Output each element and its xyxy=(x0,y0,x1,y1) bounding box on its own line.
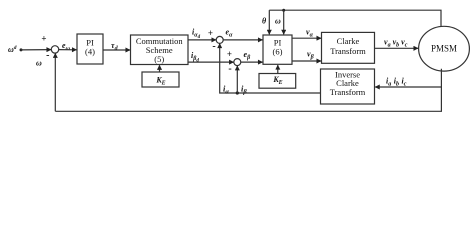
svg-text:vβ: vβ xyxy=(307,49,315,60)
svg-text:ω: ω xyxy=(36,59,42,68)
op block PI6 xyxy=(263,35,292,64)
svg-text:-: - xyxy=(212,41,215,52)
wire Commutation to S2 xyxy=(188,39,216,41)
svg-text:iαd: iαd xyxy=(192,28,201,41)
block Commutation Scheme xyxy=(131,35,189,65)
svg-text:-: - xyxy=(228,64,231,75)
wire PMSM currents to Inverse Clarke xyxy=(375,86,441,88)
wire S1 to PI4 xyxy=(59,49,77,51)
svg-text:Transform: Transform xyxy=(330,46,366,56)
svg-text:-: - xyxy=(46,50,49,61)
svg-text:eβ: eβ xyxy=(244,50,252,61)
wire omega into PI6 xyxy=(283,10,285,34)
block Clarke Transform xyxy=(322,32,375,63)
svg-text:(6): (6) xyxy=(273,46,283,56)
summing junction S3 xyxy=(234,59,241,66)
wire theta into PI6 xyxy=(268,10,270,34)
wire Commutation to S3 xyxy=(188,61,234,63)
svg-text:+: + xyxy=(208,28,213,38)
junction dot omega top line xyxy=(282,9,285,12)
wire input to summing junction S1 xyxy=(21,49,51,51)
svg-text:iα: iα xyxy=(223,84,229,96)
node input dot xyxy=(20,48,23,51)
block KE2 xyxy=(259,74,296,89)
wire KE1 to Commutation xyxy=(159,65,161,72)
wire S2 to PI6 xyxy=(223,39,262,41)
wire KE2 to PI6 xyxy=(277,65,279,73)
svg-text:Clarke: Clarke xyxy=(337,36,360,46)
summing junction S2 xyxy=(216,36,223,43)
wire PMSM bottom feedback vertical xyxy=(55,69,441,112)
wire S3 to PI6 xyxy=(241,61,263,63)
svg-text:eω: eω xyxy=(62,41,71,52)
summing junction S1 xyxy=(51,46,58,53)
junction dot i_beta xyxy=(236,91,239,94)
svg-text:θ: θ xyxy=(262,17,267,26)
wire i_beta up to S3 xyxy=(236,66,238,93)
svg-text:+: + xyxy=(227,49,232,59)
machine PMSM xyxy=(419,26,470,71)
svg-text:vα: vα xyxy=(306,28,314,39)
wire PI4 to Commutation xyxy=(103,49,130,51)
wire Inverse Clarke output i_alpha i_beta xyxy=(220,44,321,93)
svg-text:ωd: ωd xyxy=(8,45,17,54)
svg-text:PMSM: PMSM xyxy=(431,44,457,54)
op block PI4 xyxy=(77,34,103,64)
wire Clarke to PMSM xyxy=(375,47,419,49)
block Inverse Clarke Transform xyxy=(321,69,375,104)
svg-text:iaibic: iaibic xyxy=(386,77,407,88)
svg-text:iβ: iβ xyxy=(241,84,247,96)
wire PI6 to Clarke v_beta xyxy=(292,60,321,62)
wire top feedback line xyxy=(269,10,441,26)
block KE1 xyxy=(142,72,179,87)
svg-text:+: + xyxy=(41,34,46,44)
svg-text:Transform: Transform xyxy=(330,87,366,97)
svg-text:ω: ω xyxy=(275,17,281,26)
svg-text:vavbvc: vavbvc xyxy=(384,38,408,49)
svg-text:(4): (4) xyxy=(85,46,95,56)
svg-text:eα: eα xyxy=(226,28,234,39)
wire omega feedback up to S1 xyxy=(54,53,56,111)
svg-text:(5): (5) xyxy=(154,54,164,64)
wire PI6 to Clarke v_alpha xyxy=(292,37,321,39)
